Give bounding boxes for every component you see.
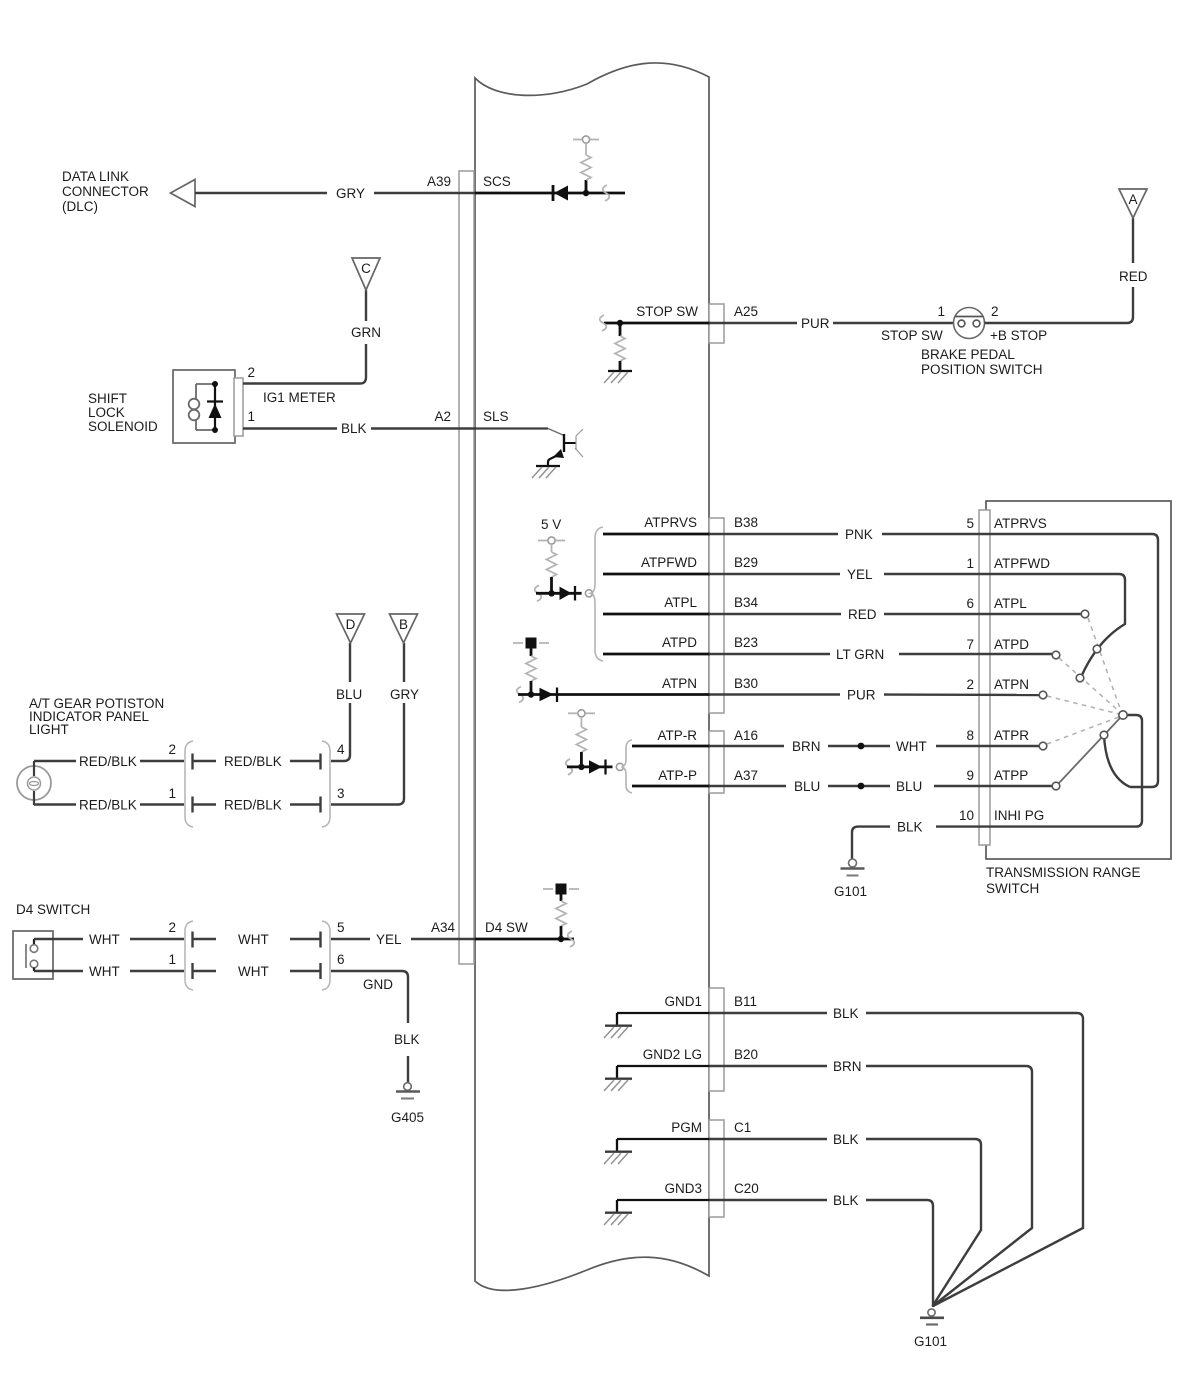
moving contact circle upper arc 2 xyxy=(1076,674,1084,682)
lower arc rotor xyxy=(1104,735,1130,787)
GND1 internal wire and ground xyxy=(604,1013,710,1038)
svg-text:(DLC): (DLC) xyxy=(62,199,98,214)
svg-text:B29: B29 xyxy=(734,555,758,570)
svg-text:6: 6 xyxy=(337,952,345,967)
wire TRS pin10 up to pivot xyxy=(1127,715,1142,827)
svg-text:2: 2 xyxy=(966,677,974,692)
svg-text:SOLENOID: SOLENOID xyxy=(88,419,158,434)
wire ATPD internal xyxy=(603,653,710,656)
wire B38 PNK to TRS pin5 xyxy=(709,533,1152,535)
power symbol 5V ATP xyxy=(538,537,565,544)
brake pedal position switch xyxy=(954,308,985,339)
svg-text:A34: A34 xyxy=(431,920,456,935)
svg-text:2: 2 xyxy=(168,920,176,935)
squiggle ATP-R/P xyxy=(566,759,573,775)
svg-text:BRN: BRN xyxy=(833,1059,862,1074)
wire B11 BLK to G101 xyxy=(709,1013,1083,1306)
contact circle ATPD xyxy=(1052,651,1060,659)
inline connector bracket left lamp xyxy=(185,741,193,827)
connector pin bars bottom row lamp xyxy=(193,797,321,813)
wire junction to diode ATP group1 xyxy=(536,592,582,595)
svg-text:1: 1 xyxy=(168,952,176,967)
svg-text:D: D xyxy=(346,617,356,632)
svg-text:A2: A2 xyxy=(434,409,451,424)
ECU left connector strip xyxy=(459,171,474,964)
svg-text:A39: A39 xyxy=(427,174,451,189)
connector A triangle xyxy=(1119,189,1147,218)
connector box A25 xyxy=(709,304,724,343)
svg-text:RED/BLK: RED/BLK xyxy=(224,754,282,769)
svg-text:SLS: SLS xyxy=(483,409,509,424)
svg-text:+B STOP: +B STOP xyxy=(990,328,1047,343)
wire lamp top RED/BLK row xyxy=(34,760,184,762)
node junction ATPN xyxy=(528,691,534,697)
svg-text:D4 SWITCH: D4 SWITCH xyxy=(16,902,90,917)
wire ATP-P internal xyxy=(632,785,710,788)
svg-text:ATPP: ATPP xyxy=(994,768,1028,783)
wire pin3 right and up to B: GRY xyxy=(331,643,404,805)
svg-text:ATPFWD: ATPFWD xyxy=(994,556,1050,571)
svg-text:ATPD: ATPD xyxy=(662,635,697,650)
TRS connector strip xyxy=(979,510,990,845)
svg-text:A25: A25 xyxy=(734,304,758,319)
ATPN resistor xyxy=(526,649,536,695)
resistor pull-down STOP SW xyxy=(615,323,625,370)
solenoid connector strip xyxy=(234,378,243,436)
svg-text:SWITCH: SWITCH xyxy=(986,881,1039,896)
svg-text:1: 1 xyxy=(937,304,945,319)
connector pin bars top row lamp xyxy=(193,754,321,770)
wire D4 pin2 WHT xyxy=(34,938,184,940)
contact circle ATPR xyxy=(1039,742,1047,750)
svg-text:ATPRVS: ATPRVS xyxy=(644,515,697,530)
wire pin6 GND down xyxy=(331,971,408,1023)
output circle ATP group1 xyxy=(585,590,592,597)
wire ATPFWD down and arc in TRS xyxy=(1082,574,1125,675)
svg-text:ATPD: ATPD xyxy=(994,637,1029,652)
svg-text:BLK: BLK xyxy=(394,1032,420,1047)
svg-text:POSITION SWITCH: POSITION SWITCH xyxy=(921,362,1043,377)
solid rotor line ATPP to pivot xyxy=(1059,718,1120,783)
power symbol ATP-R/P xyxy=(568,710,595,717)
svg-text:INHI PG: INHI PG xyxy=(994,808,1044,823)
svg-text:WHT: WHT xyxy=(896,739,927,754)
svg-text:CONNECTOR: CONNECTOR xyxy=(62,184,149,199)
svg-text:BRAKE PEDAL: BRAKE PEDAL xyxy=(921,347,1015,362)
squiggle break STOP SW xyxy=(600,315,607,331)
wire B34 RED to TRS pin6 xyxy=(709,613,1081,615)
svg-text:GND3: GND3 xyxy=(664,1181,702,1196)
pivot circle xyxy=(1119,711,1127,719)
svg-text:STOP SW: STOP SW xyxy=(636,304,698,319)
svg-text:ATPR: ATPR xyxy=(994,728,1029,743)
contact circle ATPP xyxy=(1052,782,1060,790)
svg-text:7: 7 xyxy=(966,637,974,652)
svg-text:G101: G101 xyxy=(914,1334,947,1349)
svg-text:PGM: PGM xyxy=(671,1120,702,1135)
output circle ATP-R/P xyxy=(616,763,623,770)
svg-text:PUR: PUR xyxy=(801,316,830,331)
svg-text:A37: A37 xyxy=(734,768,758,783)
svg-text:ATPN: ATPN xyxy=(994,677,1029,692)
svg-text:GND1: GND1 xyxy=(664,994,702,1009)
wire GRY to A39 xyxy=(195,192,476,194)
inline connector bracket right D4 xyxy=(322,921,330,990)
TRANSMISSION RANGE SWITCH label xyxy=(986,865,1141,896)
SHIFT LOCK SOLENOID label xyxy=(88,391,158,434)
GND3 internal wire and ground xyxy=(604,1200,710,1225)
svg-text:9: 9 xyxy=(966,768,974,783)
shift lock solenoid box xyxy=(173,370,235,443)
dashed line pivot to ATPR xyxy=(1047,717,1119,744)
svg-text:C: C xyxy=(361,261,371,276)
connector pin bars D4 bottom xyxy=(193,963,321,979)
lamp A/T gear indicator xyxy=(17,761,51,805)
ground G405 xyxy=(396,1083,420,1099)
svg-text:BLU: BLU xyxy=(336,687,362,702)
wire B29 YEL to TRS pin1 xyxy=(709,573,1119,575)
svg-text:PUR: PUR xyxy=(847,688,876,703)
wire ATPL internal xyxy=(603,613,710,616)
STOP SW internal wire xyxy=(604,322,710,325)
svg-text:ATP-R: ATP-R xyxy=(658,728,698,743)
wire INHI PG BLK to ground xyxy=(852,827,1136,859)
inline connector bracket left D4 xyxy=(185,921,193,990)
svg-text:ATPRVS: ATPRVS xyxy=(994,516,1047,531)
svg-text:LIGHT: LIGHT xyxy=(29,722,69,737)
ground G101 mid xyxy=(841,859,865,876)
svg-text:8: 8 xyxy=(966,728,974,743)
svg-text:B34: B34 xyxy=(734,595,759,610)
svg-text:4: 4 xyxy=(337,742,345,757)
moving contact circle lower arc xyxy=(1100,731,1108,739)
svg-text:WHT: WHT xyxy=(238,932,269,947)
wire ATPFWD internal xyxy=(603,573,710,576)
svg-text:YEL: YEL xyxy=(376,932,402,947)
resistor pull-up SCS xyxy=(581,144,591,193)
svg-text:ATPN: ATPN xyxy=(662,676,697,691)
wire SCS internal xyxy=(475,192,625,195)
transmission range switch box xyxy=(986,501,1171,859)
wire A25 PUR xyxy=(709,322,954,324)
svg-text:GRY: GRY xyxy=(336,186,365,201)
PGM internal wire and ground xyxy=(604,1139,710,1164)
resistor ATP-R/P xyxy=(576,717,586,767)
moving contact circle upper arc 1 xyxy=(1093,645,1101,653)
connector box B38-B30 xyxy=(709,518,724,713)
wire pin4 up to D: BLU xyxy=(331,643,350,761)
dashed line pivot to ATPD xyxy=(1059,658,1120,712)
DATA LINK CONNECTOR (DLC) label xyxy=(62,169,149,214)
svg-text:G405: G405 xyxy=(391,1110,424,1125)
squiggle D4 SW xyxy=(568,931,575,947)
splice node A16 xyxy=(858,743,865,750)
svg-text:3: 3 xyxy=(337,786,345,801)
svg-text:1: 1 xyxy=(247,409,255,424)
connector pin bars D4 top xyxy=(193,932,321,948)
connector C triangle xyxy=(352,258,380,290)
connector box A16/A37 xyxy=(709,731,724,793)
svg-text:1: 1 xyxy=(966,556,974,571)
svg-text:5 V: 5 V xyxy=(541,517,561,532)
wire RED vertical xyxy=(1132,218,1134,263)
svg-text:5: 5 xyxy=(966,516,974,531)
wire C20 BLK to G101 xyxy=(709,1200,933,1307)
solenoid internals: coil and diode xyxy=(189,381,223,433)
wire B30 PUR to TRS pin2 xyxy=(709,693,1039,696)
wire B20 BRN to G101 xyxy=(709,1066,1032,1306)
svg-text:YEL: YEL xyxy=(847,567,873,582)
contact circle ATPN xyxy=(1039,691,1047,699)
svg-text:1: 1 xyxy=(168,786,176,801)
D4 pull-down square xyxy=(543,884,579,895)
svg-text:IG1 METER: IG1 METER xyxy=(263,390,336,405)
svg-text:BLK: BLK xyxy=(833,1132,859,1147)
svg-text:BLK: BLK xyxy=(833,1193,859,1208)
BRAKE PEDAL POSITION SWITCH label xyxy=(921,347,1043,377)
dashed line pivot to ATPL xyxy=(1088,618,1121,711)
wire A16 BRN WHT to TRS pin8 xyxy=(709,745,1039,747)
inline connector bracket right lamp xyxy=(322,741,330,827)
squiggle break SCS xyxy=(603,185,610,201)
svg-text:C1: C1 xyxy=(734,1120,751,1135)
brace bracket group2 xyxy=(622,740,633,793)
svg-text:B: B xyxy=(399,617,408,632)
diode buffer ATPN xyxy=(540,688,558,703)
svg-text:ATPL: ATPL xyxy=(994,596,1027,611)
svg-text:RED: RED xyxy=(1119,269,1148,284)
wire ATPN internal xyxy=(518,693,710,696)
ECU body outline xyxy=(475,63,709,1290)
svg-text:GND2 LG: GND2 LG xyxy=(643,1047,702,1062)
connector B triangle xyxy=(390,614,418,643)
svg-text:RED/BLK: RED/BLK xyxy=(224,798,282,813)
node junction STOP SW xyxy=(617,320,623,326)
node junction ATP-R/P xyxy=(578,764,584,770)
svg-text:A: A xyxy=(1128,192,1137,207)
svg-text:B11: B11 xyxy=(734,994,757,1009)
svg-text:G101: G101 xyxy=(834,884,867,899)
svg-text:RED: RED xyxy=(848,607,877,622)
D4 switch internals xyxy=(26,939,38,971)
svg-text:STOP SW: STOP SW xyxy=(881,328,943,343)
svg-text:ATPFWD: ATPFWD xyxy=(641,555,697,570)
splice node A37 xyxy=(858,783,865,790)
ground G101 bottom xyxy=(920,1309,944,1325)
resistor pull-up ATP 5V xyxy=(547,544,557,593)
connector box C1/C20 xyxy=(709,1120,724,1217)
svg-text:RED/BLK: RED/BLK xyxy=(79,754,137,769)
wire C1 BLK to G101 xyxy=(709,1139,981,1306)
wire pin5 YEL to A34 xyxy=(331,938,476,940)
svg-text:5: 5 xyxy=(337,920,345,935)
svg-text:WHT: WHT xyxy=(89,932,120,947)
svg-text:GND: GND xyxy=(363,977,393,992)
svg-text:ATP-P: ATP-P xyxy=(658,768,697,783)
D4 resistor xyxy=(556,895,566,940)
svg-text:LT GRN: LT GRN xyxy=(836,647,884,662)
svg-text:BRN: BRN xyxy=(792,739,821,754)
svg-text:B20: B20 xyxy=(734,1047,758,1062)
D4 SW internal wire xyxy=(475,938,574,941)
diode D SCS xyxy=(553,185,568,201)
connector box B11/B20 xyxy=(709,988,724,1091)
svg-text:LOCK: LOCK xyxy=(88,405,125,420)
wire +B STOP to A triangle xyxy=(985,287,1134,323)
GND2 internal wire and ground xyxy=(604,1066,710,1091)
wire pin1 BLK to A2 xyxy=(243,427,476,429)
diode buffer ATP group1 xyxy=(560,586,576,601)
A/T GEAR POTISTON INDICATOR PANEL LIGHT label xyxy=(29,696,164,737)
power symbol 5V-ish SCS xyxy=(573,136,599,143)
diode buffer ATP-R/P xyxy=(589,760,606,775)
ATPN pull-down: square xyxy=(513,638,549,649)
svg-text:B38: B38 xyxy=(734,515,758,530)
svg-text:BLK: BLK xyxy=(897,820,923,835)
svg-text:WHT: WHT xyxy=(89,964,120,979)
svg-text:BLK: BLK xyxy=(341,421,367,436)
svg-text:2: 2 xyxy=(247,365,255,380)
svg-text:B30: B30 xyxy=(734,676,758,691)
svg-text:10: 10 xyxy=(959,808,974,823)
brace bracket group1 xyxy=(591,527,604,661)
svg-text:2: 2 xyxy=(168,742,176,757)
svg-text:ATPL: ATPL xyxy=(664,595,697,610)
node junction SCS xyxy=(583,190,589,196)
wire ATPRVS down right side in TRS xyxy=(1130,534,1158,787)
node junction ATP group1 xyxy=(548,590,554,596)
svg-text:BLK: BLK xyxy=(833,1006,859,1021)
svg-text:6: 6 xyxy=(966,596,974,611)
SLS internal transistor driver xyxy=(475,429,583,479)
contact circle ATPL xyxy=(1081,610,1089,618)
svg-text:WHT: WHT xyxy=(238,964,269,979)
svg-text:PNK: PNK xyxy=(845,527,873,542)
svg-text:2: 2 xyxy=(991,304,999,319)
svg-text:SHIFT: SHIFT xyxy=(88,391,127,406)
wire pin2 to GRN corner xyxy=(243,344,366,384)
wire D4 pin1 WHT xyxy=(34,970,184,972)
svg-text:BLU: BLU xyxy=(896,779,922,794)
svg-text:SCS: SCS xyxy=(483,174,511,189)
svg-text:TRANSMISSION RANGE: TRANSMISSION RANGE xyxy=(986,865,1141,880)
wire B23 LT GRN to TRS pin7 xyxy=(709,653,1052,655)
squiggle ATPN xyxy=(517,687,524,703)
wire A37 BLU BLU to TRS pin9 xyxy=(709,785,1052,787)
connector D triangle xyxy=(337,614,365,643)
dashed line pivot to ATPN xyxy=(1047,696,1119,714)
svg-text:GRN: GRN xyxy=(351,325,381,340)
wire lamp bottom RED/BLK row xyxy=(34,803,184,805)
D4 switch box xyxy=(13,931,53,979)
svg-text:B23: B23 xyxy=(734,635,758,650)
ground internal STOP SW xyxy=(604,371,632,383)
squiggle ATP 5V wire xyxy=(535,585,542,601)
wire junction ATP-R/P xyxy=(567,766,613,769)
DLC arrow connector xyxy=(171,180,196,207)
wire GRN vertical xyxy=(365,290,367,321)
svg-text:A16: A16 xyxy=(734,728,758,743)
wire BLK to G405 xyxy=(407,1056,409,1084)
svg-text:BLU: BLU xyxy=(794,779,820,794)
svg-text:DATA LINK: DATA LINK xyxy=(62,169,129,184)
svg-text:D4 SW: D4 SW xyxy=(485,920,528,935)
node junction D4 SW xyxy=(558,936,564,942)
wire ATP-R internal xyxy=(632,745,710,748)
svg-text:RED/BLK: RED/BLK xyxy=(79,798,137,813)
wire ATPRVS internal xyxy=(603,533,710,536)
svg-text:GRY: GRY xyxy=(390,687,419,702)
svg-text:C20: C20 xyxy=(734,1181,759,1196)
